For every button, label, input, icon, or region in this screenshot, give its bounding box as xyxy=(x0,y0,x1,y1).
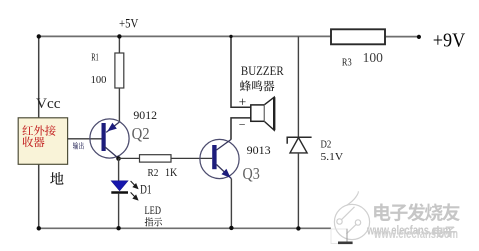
svg-text:Q2: Q2 xyxy=(132,124,150,143)
watermark small cjk overlay xyxy=(433,226,455,237)
LED D1 (blue) xyxy=(111,181,128,193)
svg-text:www.elecfans.com: www.elecfans.com xyxy=(373,226,458,241)
wire: R2 to Q3 base xyxy=(171,157,212,159)
wire: left vertical from +5V rail to receiver Vcc pin xyxy=(38,36,40,118)
wire: buzzer + terminal from +5V rail xyxy=(231,36,251,107)
label 蜂鸣器 xyxy=(240,80,275,91)
wire: D2 anode to ground rail xyxy=(297,153,299,229)
+9V terminal dot xyxy=(417,35,421,39)
svg-text:R2: R2 xyxy=(148,168,159,179)
wire: node to R2 xyxy=(119,157,140,159)
label 输出 (output) xyxy=(73,142,84,149)
zener diode D2 xyxy=(287,137,311,153)
wire: +5V rail to R1 xyxy=(118,36,120,53)
ground rail (bottom) xyxy=(39,227,331,229)
watermark text 电子发烧友 xyxy=(374,203,460,221)
IR receiver module box xyxy=(18,118,67,165)
svg-text:9013: 9013 xyxy=(247,143,271,157)
wire: receiver output to Q2 base xyxy=(68,138,102,140)
+5V power rail (top) xyxy=(39,35,417,37)
svg-text:+: + xyxy=(239,94,247,109)
svg-text:D2: D2 xyxy=(321,140,332,151)
svg-text:BUZZER: BUZZER xyxy=(241,64,284,78)
transistor Q3 (9013 NPN) xyxy=(200,139,239,178)
svg-text:Vcc: Vcc xyxy=(36,96,61,112)
svg-text:Q3: Q3 xyxy=(243,164,260,183)
svg-text:+5V: +5V xyxy=(119,16,138,30)
svg-text:R3: R3 xyxy=(342,57,352,68)
svg-text:D1: D1 xyxy=(140,182,151,196)
wire: receiver ground pin down to ground rail xyxy=(38,164,40,228)
resistor R3 body xyxy=(331,29,385,44)
label 指示 xyxy=(145,217,162,226)
wire: Q3 emitter to ground rail xyxy=(230,179,232,229)
LED light arrows xyxy=(131,181,138,200)
buzzer speaker symbol xyxy=(251,97,274,130)
ground symbol (bottom right) xyxy=(338,229,353,243)
wire: node down to LED D1 xyxy=(118,159,120,182)
svg-text:5.1V: 5.1V xyxy=(321,152,344,163)
svg-text:1K: 1K xyxy=(165,165,178,179)
label 地 (ground) xyxy=(50,172,63,185)
transistor Q2 (9012 PNP) xyxy=(90,119,129,158)
wire: buzzer - terminal down to Q3 collector xyxy=(231,118,251,140)
svg-text:9012: 9012 xyxy=(133,108,157,122)
watermark logo circle xyxy=(331,191,370,243)
resistor R2 body xyxy=(140,155,172,162)
wire: R1 to Q2 emitter xyxy=(118,88,120,122)
svg-text:LED: LED xyxy=(145,203,162,217)
svg-text:+9V: +9V xyxy=(433,29,466,51)
wire: +5V rail down to zener D2 xyxy=(297,36,299,137)
svg-text:R1: R1 xyxy=(91,52,99,64)
svg-text:100: 100 xyxy=(363,50,384,65)
resistor R1 body xyxy=(115,53,124,88)
svg-text:−: − xyxy=(239,118,246,132)
label 红外接收器 (red, two lines) xyxy=(22,125,55,147)
node: Q2 collector junction xyxy=(116,156,121,161)
svg-text:100: 100 xyxy=(91,74,107,86)
wire: D1 cathode to ground rail xyxy=(118,194,120,229)
